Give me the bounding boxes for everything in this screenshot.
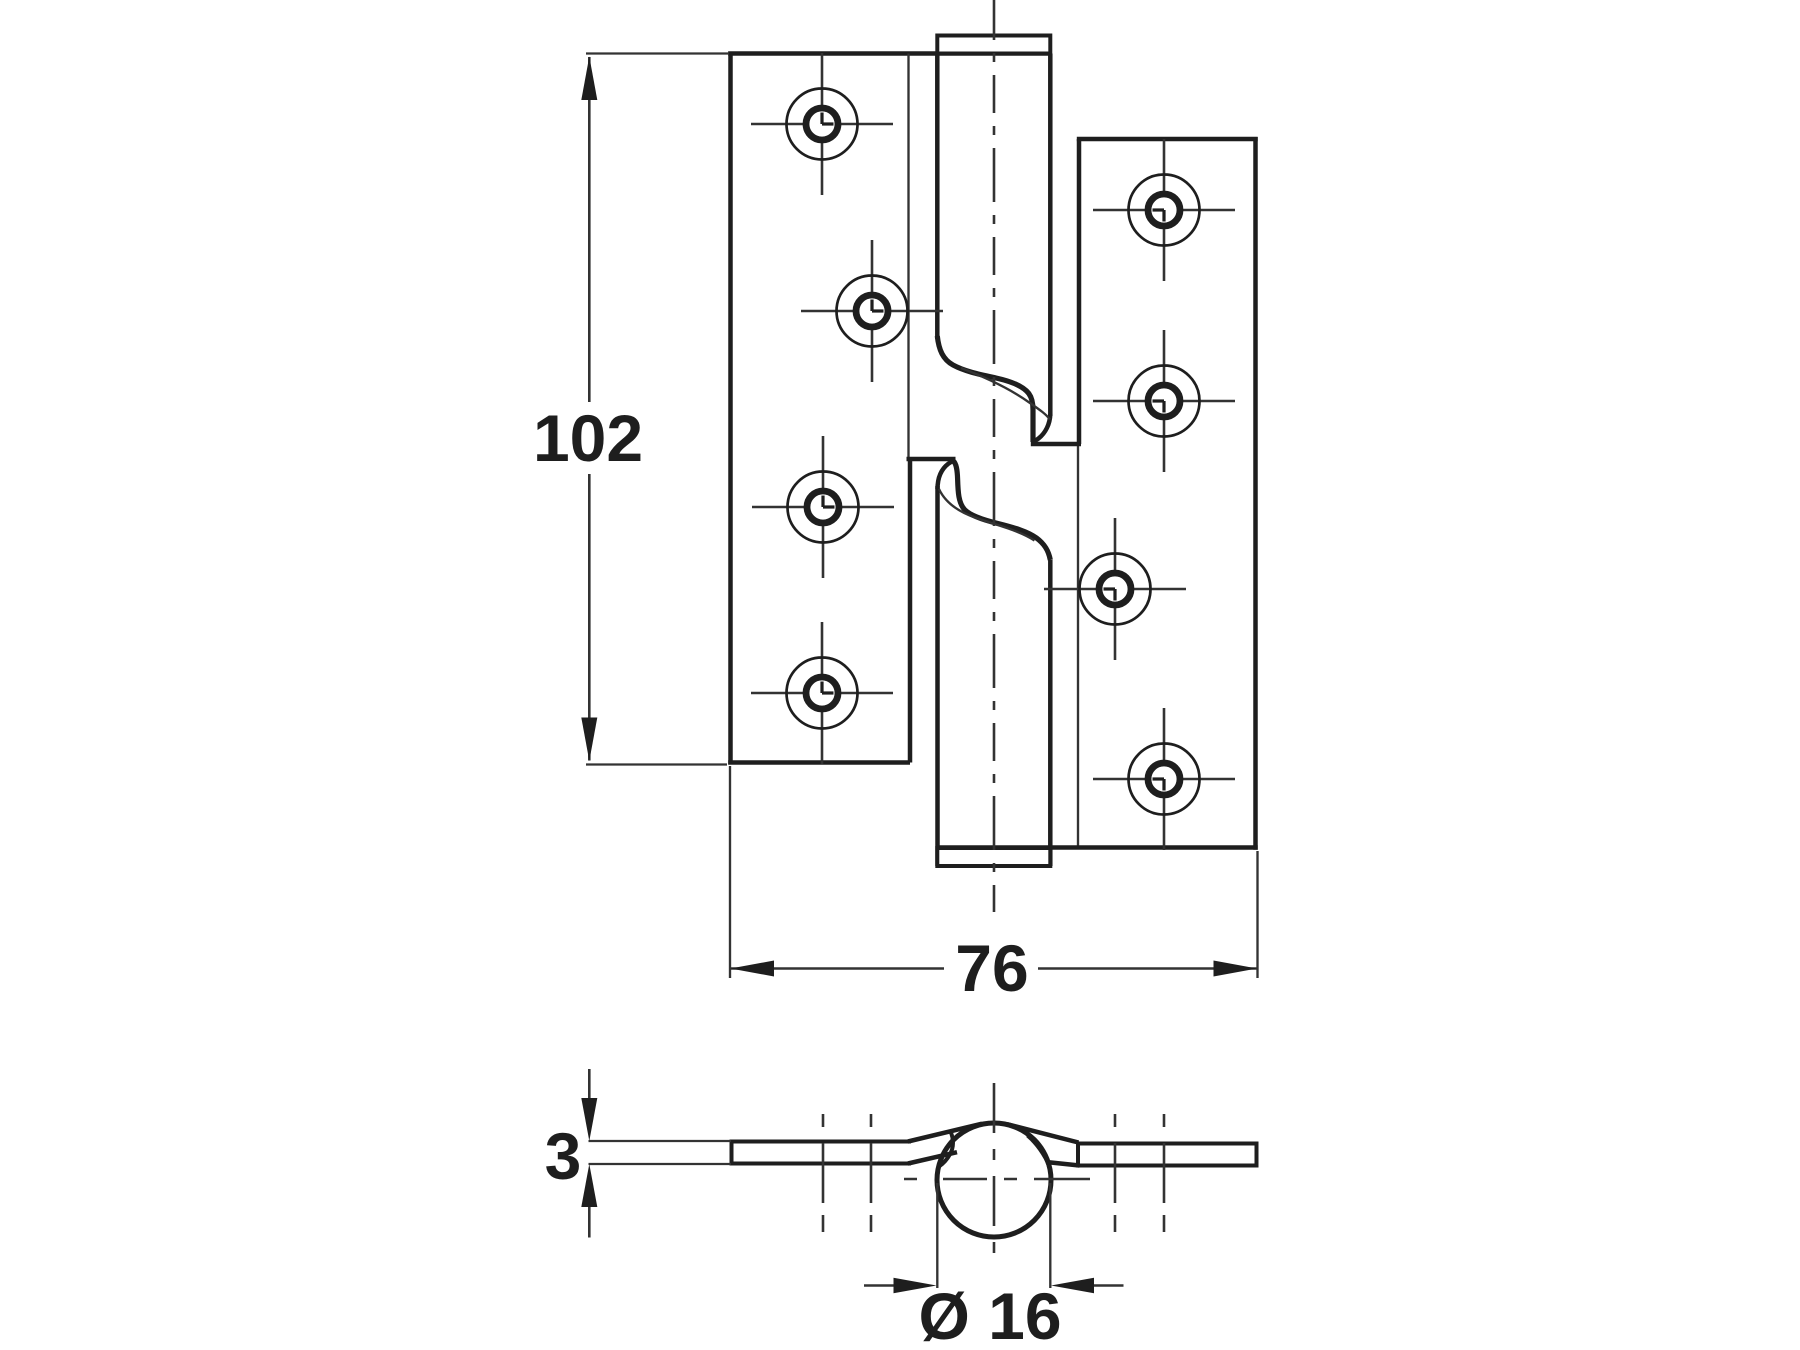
- section view: leaf-to-barrel slopes and wrap end faces: [908, 1124, 1080, 1172]
- screw hole H3 (left leaf): [752, 436, 894, 578]
- section view: screw position centerlines: [822, 1114, 825, 1232]
- left leaf: [728, 52, 1050, 765]
- screw hole H5 (right leaf): [1093, 139, 1235, 281]
- screw hole H4 (left leaf): [751, 622, 893, 764]
- pin centerline (main view): [993, 0, 996, 912]
- section view: horizontal centerline: [904, 1178, 1090, 1181]
- upper knuckle (right leaf half): [937, 54, 1081, 445]
- knuckle pin top cap: [937, 36, 1050, 54]
- screw hole H1 (left leaf): [751, 53, 893, 195]
- lower knuckle (left leaf half): [907, 459, 1051, 866]
- screw hole H2 (left leaf): [801, 240, 943, 382]
- section view: knuckle barrel circle: [937, 1123, 1051, 1237]
- dimension 102 (height): [533, 54, 729, 765]
- section view: vertical centerline: [993, 1083, 996, 1268]
- dimension Ø16 (barrel diameter): [864, 1183, 1124, 1350]
- section view: left leaf bar: [732, 1140, 912, 1166]
- right leaf: [938, 137, 1258, 850]
- section view: right leaf bar: [1078, 1142, 1257, 1168]
- svg-text:3: 3: [545, 1119, 582, 1193]
- dimension 3 (leaf thickness): [545, 1069, 731, 1238]
- dimension 76 (width): [730, 766, 1258, 1005]
- svg-text:76: 76: [955, 931, 1028, 1005]
- svg-text:Ø 16: Ø 16: [918, 1279, 1061, 1350]
- svg-text:102: 102: [533, 401, 643, 475]
- knuckle pin bottom cap: [937, 848, 1050, 866]
- screw hole H6 (right leaf): [1093, 330, 1235, 472]
- screw hole H7 (right leaf): [1044, 518, 1186, 660]
- screw hole H8 (right leaf): [1093, 708, 1235, 850]
